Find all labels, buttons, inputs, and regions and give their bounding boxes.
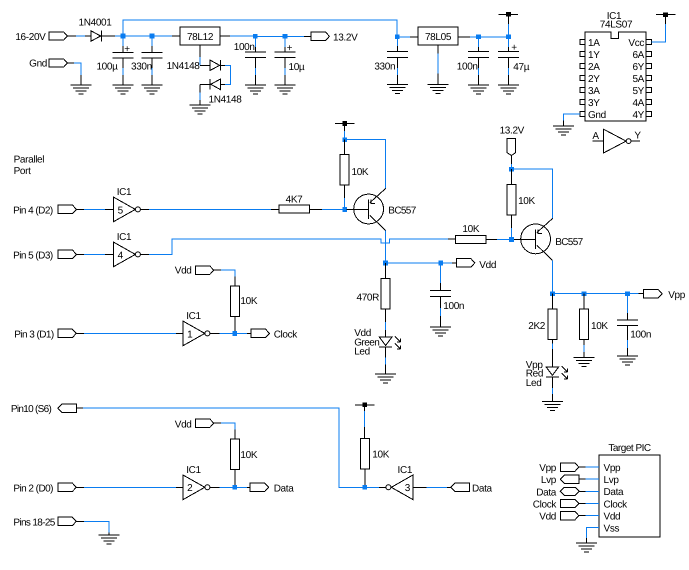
junction 10u node [283, 34, 288, 39]
resistor 470R [381, 279, 390, 310]
op-amp U1 74LS07 body [585, 32, 646, 121]
svg-text:4: 4 [118, 250, 124, 261]
svg-text:4K7: 4K7 [286, 195, 304, 206]
svg-text:Vdd: Vdd [539, 512, 556, 523]
svg-text:330n: 330n [131, 62, 152, 73]
ground 100n (Vdd node) [430, 326, 451, 328]
wire 10K to Q2 base node [510, 215, 512, 228]
wire 78L05 output [458, 36, 470, 38]
wire 47u to ground [507, 57, 509, 68]
junction 13.2V node [509, 167, 514, 172]
wire Q1 collector down to Vdd switch node [385, 231, 387, 263]
wire D2 cathode to D3 anode [221, 64, 225, 66]
junction Vpp node 3 [625, 291, 630, 296]
wire D1 cathode to node A [101, 35, 115, 37]
connector 16-20V [49, 32, 67, 40]
svg-text:BC557: BC557 [388, 206, 416, 217]
diode 1N4148 D2 [210, 60, 220, 70]
svg-text:Data: Data [274, 483, 295, 494]
connector Pins 18-25 [58, 517, 76, 525]
legend buffer bubble [626, 139, 631, 144]
wire 10K to clock node [234, 316, 236, 333]
wire Q2 base lead [512, 238, 514, 240]
resistor 4K7 [279, 205, 310, 213]
capacitor 330n [142, 52, 163, 54]
svg-text:10K: 10K [352, 167, 369, 178]
capacitor 100u [113, 52, 134, 54]
connector Pin 2 (D0) [58, 483, 76, 491]
wire Q1 base lead [345, 208, 347, 210]
capacitor 330n lead (78L05 in) [396, 37, 398, 46]
wire data node to Data connector [235, 486, 247, 488]
ground 10K (Vpp bleed) [574, 356, 595, 358]
junction 330n node [150, 34, 155, 39]
svg-text:16-20V: 16-20V [15, 32, 46, 43]
wire 100n-5V to ground [477, 57, 479, 68]
wire clock node to Clock connector [235, 332, 247, 334]
svg-text:Vdd: Vdd [175, 266, 192, 277]
svg-text:BC557: BC557 [555, 237, 583, 248]
svg-text:78L05: 78L05 [425, 32, 452, 43]
svg-text:Data: Data [604, 487, 625, 498]
svg-text:Port: Port [14, 166, 32, 177]
ground 74LS07 [553, 125, 574, 127]
ground 100n (Vpp node) [617, 355, 638, 357]
power rail Vdd tap (74LS07 Vcc) [656, 14, 675, 16]
connector Vdd (data pull-up) [195, 419, 213, 427]
svg-text:Lvp: Lvp [541, 475, 557, 486]
wire Vdd to 10K data pull-up [214, 422, 222, 424]
wire Vss to ground [587, 528, 600, 538]
wire power tap to Q1 emitter node [344, 123, 346, 131]
wire to Vpp connector [627, 293, 638, 295]
svg-text:100n: 100n [457, 62, 478, 73]
ground red LED [542, 401, 563, 403]
resistor 10K (Q2 base) [455, 235, 486, 243]
svg-text:Vdd: Vdd [604, 512, 621, 523]
wire Pin5 to buffer 4 input [76, 253, 84, 255]
svg-text:3Y: 3Y [588, 98, 600, 109]
legend buffer triangle [604, 129, 626, 153]
led Red [546, 367, 559, 376]
svg-text:Parallel: Parallel [14, 155, 45, 166]
pins 74LS07 right [646, 39, 651, 44]
wire Pin3 to buffer 1 [76, 332, 84, 334]
wire green LED to ground [385, 347, 387, 358]
junction node A (raw DC) [121, 34, 126, 39]
svg-text:Vpp: Vpp [604, 463, 622, 474]
svg-text:10K: 10K [240, 296, 257, 307]
wire 100u to ground [122, 58, 124, 68]
wire emitter rail node to Q1 emitter [345, 140, 386, 189]
svg-text:5Y: 5Y [632, 86, 644, 97]
connector Clock (target) [560, 499, 578, 507]
junction Vdd switch node [383, 261, 388, 266]
wire 100n Vpp to ground [626, 326, 628, 340]
resistor 10K (S6 pull-up) [360, 438, 369, 469]
wire Vpp node to 2K2 [551, 294, 553, 309]
svg-text:4Y: 4Y [632, 110, 644, 121]
capacitor 10u [274, 51, 295, 53]
led Green [379, 337, 392, 346]
wire 78L12 output [220, 35, 230, 37]
svg-text:10K: 10K [372, 450, 389, 461]
power rail 13.2V tap (Q1) [335, 122, 354, 124]
junction Vdd 100n node [438, 261, 443, 266]
svg-text:Pin 5 (D3): Pin 5 (D3) [13, 251, 53, 262]
svg-text:3: 3 [405, 483, 411, 494]
regulator 78L12 [180, 27, 220, 45]
svg-text:Vdd: Vdd [479, 260, 496, 271]
wire to 47u node [478, 36, 508, 38]
svg-text:10K: 10K [518, 196, 535, 207]
regulator 78L05 [418, 27, 458, 45]
svg-text:A: A [592, 131, 599, 142]
resistor 10K (Vpp bleed) [580, 309, 589, 340]
svg-text:6A: 6A [632, 50, 644, 61]
wire buffer 4 output to long base row [140, 253, 148, 255]
svg-text:47µ: 47µ [513, 62, 529, 73]
wire 5V node up to power tap [507, 24, 509, 37]
wire power tap to 10K [364, 405, 366, 411]
capacitor 100u lead top [122, 36, 124, 46]
wire 100n node down [440, 263, 442, 283]
ground 10u [274, 84, 295, 86]
ground Vss [576, 542, 597, 544]
wire 13.2V node to Q2 emitter [512, 169, 553, 218]
svg-text:1N4001: 1N4001 [79, 18, 113, 29]
wire 10K bleed to ground [583, 340, 585, 346]
svg-text:Lvp: Lvp [604, 475, 620, 486]
svg-text:1: 1 [187, 329, 193, 340]
svg-text:Clock: Clock [533, 500, 558, 511]
capacitor 47u lead [507, 37, 509, 47]
svg-text:Vss: Vss [604, 524, 620, 535]
svg-text:Led: Led [526, 378, 542, 389]
connector 13.2V (down) [507, 138, 515, 155]
wire Vpp node to 10K node [552, 293, 584, 295]
connector 13.2V output [311, 32, 329, 40]
capacitor 100n (12V rail) [245, 51, 266, 53]
junction Q1 emitter rail node [342, 137, 347, 142]
svg-text:2: 2 [187, 483, 193, 494]
connector Vdd (switch node) [456, 259, 474, 267]
svg-text:Gnd: Gnd [29, 59, 47, 70]
ground 100n (5V rail) [468, 84, 489, 86]
svg-text:Data: Data [536, 487, 557, 498]
svg-text:+: + [124, 44, 130, 55]
svg-text:100n: 100n [443, 301, 464, 312]
svg-text:Clock: Clock [604, 499, 629, 510]
svg-text:Pin 3 (D1): Pin 3 (D1) [14, 330, 54, 341]
wire 13.2V node down to 10K [511, 169, 513, 184]
capacitor 100n lead [254, 36, 256, 47]
svg-text:IC1: IC1 [398, 465, 413, 476]
diode 1N4148 D3 [209, 79, 211, 90]
connector Pin 5 (D3) [58, 250, 76, 258]
connector Vpp (target) [560, 463, 578, 471]
svg-text:2K2: 2K2 [528, 321, 546, 332]
resistor 10K (Q2 bias) [507, 185, 516, 216]
wire to 100n node [584, 293, 627, 295]
svg-text:+: + [287, 43, 293, 54]
svg-text:6Y: 6Y [632, 62, 644, 73]
wire node A up to top rail [123, 20, 397, 37]
capacitor 47u [498, 51, 519, 53]
svg-text:IC1: IC1 [117, 187, 132, 198]
resistor 10K (clock pull-up) [230, 286, 239, 317]
wire to 10u node [255, 35, 285, 37]
resistor 2K2 [548, 309, 557, 340]
wire Vdd to 10K clock pull-up [214, 269, 222, 271]
svg-text:IC1: IC1 [186, 465, 201, 476]
connector Lvp (target) [560, 475, 579, 483]
svg-text:4A: 4A [632, 98, 644, 109]
wire 10K to Q1 base node [344, 185, 346, 198]
wire Data to PIC [580, 490, 586, 492]
svg-text:Clock: Clock [274, 329, 299, 340]
capacitor 330n (78L05 input) [387, 51, 408, 53]
wire 78L12 gnd pin down [199, 45, 201, 57]
Target PIC body [599, 455, 660, 537]
capacitor 100n (Vpp node) [617, 319, 638, 321]
svg-text:Data: Data [472, 483, 493, 494]
junction 5V node 1 [476, 34, 481, 39]
junction Q2 base node [509, 237, 514, 242]
capacitor 330n lead top [151, 36, 153, 46]
svg-text:5: 5 [118, 205, 124, 216]
ground 100u [113, 84, 134, 86]
wire 330n-2 to ground [396, 57, 398, 68]
wire Pin2 to buffer 2 [76, 486, 84, 488]
wire buffer 3 input to Data connector [413, 486, 426, 488]
svg-text:Pins 18-25: Pins 18-25 [13, 518, 55, 529]
transistor Q2 BC557 [521, 224, 551, 254]
connector Vpp [644, 290, 662, 298]
svg-text:Vdd: Vdd [175, 420, 192, 431]
svg-text:470R: 470R [356, 292, 379, 303]
connector Pin 4 (D2) [58, 205, 76, 213]
capacitor 10u lead [284, 36, 286, 47]
svg-text:74LS07: 74LS07 [600, 20, 633, 31]
wire 330n to ground [151, 58, 153, 68]
connector Data (target, bidirectional) [560, 487, 579, 495]
capacitor 100n (5V rail) [468, 51, 489, 53]
svg-text:Vcc: Vcc [628, 38, 644, 49]
wire Vcc pin to power tap [651, 24, 665, 42]
op-amp U1 buffer 4 [114, 242, 136, 266]
resistor 10K (Q1 bias) [340, 154, 349, 185]
junction Q1 base node [342, 207, 347, 212]
svg-text:13.2V: 13.2V [333, 32, 358, 43]
svg-text:2A: 2A [588, 62, 600, 73]
wire node A to 330n node [123, 35, 152, 37]
wire Vdd node to 100n node [386, 262, 441, 264]
ground 78L05 [428, 84, 449, 86]
op-amp U1 buffer 5 [114, 197, 136, 221]
legend buffer output wire Y [631, 140, 640, 142]
wire Pins 18-25 to ground [76, 520, 84, 522]
wire Clock to PIC [579, 503, 586, 505]
connector Pin10 (S6) [58, 404, 77, 412]
wire Gnd to ground [67, 62, 74, 64]
op-amp U1 buffer 1 [183, 321, 205, 345]
capacitor 100n lead (5V) [477, 37, 479, 47]
ground green LED [375, 373, 396, 375]
svg-text:Target PIC: Target PIC [608, 443, 651, 454]
svg-text:Vpp: Vpp [539, 463, 557, 474]
wire buffer 5 output to 4K7 [140, 208, 148, 210]
wire power node down to 10K [344, 140, 346, 155]
ground 330n (78L05 input) [387, 84, 408, 86]
connector Data (to target) [250, 483, 268, 491]
wire 78L05 gnd pin [437, 45, 439, 54]
wire Pin4 to buffer 5 input [76, 208, 84, 210]
svg-text:13.2V: 13.2V [500, 126, 525, 137]
wire 78L05 input [397, 36, 410, 38]
wire buffer 1 output to clock node [210, 332, 220, 334]
wire 100n to ground [254, 58, 256, 68]
svg-text:10K: 10K [591, 321, 608, 332]
wire 4K7 to Q1 base node [309, 208, 322, 210]
junction data node [232, 485, 237, 490]
connector Vdd (clock pull-up) [195, 266, 213, 274]
wire 10K to data node [234, 469, 236, 487]
svg-text:Y: Y [634, 131, 641, 142]
wire 2K2 to red LED [551, 339, 553, 343]
junction S6 node [362, 485, 367, 490]
svg-text:1N4148: 1N4148 [167, 61, 201, 72]
junction 78L12 out node [253, 34, 258, 39]
junction Vpp node 1 [550, 291, 555, 296]
svg-text:78L12: 78L12 [187, 32, 214, 43]
wire S6 long run to buffer 3 output [76, 407, 83, 409]
svg-text:10K: 10K [462, 224, 479, 235]
power rail Vdd tap (78L05) [499, 13, 518, 15]
svg-text:Vpp: Vpp [668, 290, 686, 301]
wire buffer 2 output to data node [210, 486, 220, 488]
diode 1N4001 [91, 31, 101, 41]
wire 100n Vdd to ground [440, 296, 442, 308]
svg-text:100µ: 100µ [96, 62, 118, 73]
wire to 78L12 input [152, 35, 172, 37]
connector Data (from target) [451, 483, 470, 491]
svg-text:1N4148: 1N4148 [209, 95, 243, 106]
resistor 10K (data pull-up) [230, 439, 239, 470]
power rail Vdd tap (S6 pull-up) [355, 404, 374, 406]
svg-text:100n: 100n [234, 42, 255, 53]
svg-text:10µ: 10µ [289, 62, 305, 73]
wire Vpp to PIC [579, 466, 586, 468]
op-amp U1 buffer 2 [183, 475, 205, 499]
ground 330n [142, 84, 163, 86]
wire Q2 collector down to Vpp node [551, 260, 553, 293]
connector Pin 3 (D1) [58, 329, 76, 337]
junction 78L05 input node [395, 34, 400, 39]
svg-text:5A: 5A [632, 74, 644, 85]
wire Vpp node2 to 10K [583, 294, 585, 309]
wire 10K to S6 node [364, 469, 366, 488]
wire 10K to Q2 base node [486, 238, 497, 240]
wire Gnd pin to ground [564, 114, 580, 120]
ground Gnd input [71, 84, 92, 86]
wire 10u to ground [284, 58, 286, 68]
wire 13.2V connector to node [510, 156, 512, 164]
svg-text:Led: Led [354, 347, 370, 358]
svg-text:330n: 330n [374, 62, 395, 73]
junction 5V node 2 [506, 34, 511, 39]
junction clock node [232, 331, 237, 336]
transistor Q1 BC557 [354, 194, 384, 224]
connector Clock [251, 329, 269, 337]
ground 100n (12V rail) [245, 84, 266, 86]
svg-text:+: + [511, 43, 517, 54]
wire Vpp node3 down [626, 294, 628, 313]
svg-text:10K: 10K [240, 450, 257, 461]
wire S6 node to buffer 3 bubble [365, 486, 379, 488]
wire red LED to ground [551, 377, 553, 388]
op-amp U1 buffer 3 (mirrored) [386, 485, 391, 490]
svg-text:100n: 100n [630, 330, 651, 341]
wire to D2 anode [200, 64, 210, 66]
svg-text:3A: 3A [588, 86, 600, 97]
ground 47u [498, 84, 519, 86]
wire to 13.2V connector [285, 35, 304, 37]
wire Lvp to PIC [579, 478, 586, 480]
svg-text:1Y: 1Y [588, 50, 600, 61]
connector Gnd [49, 59, 67, 67]
wire Vdd to PIC [579, 515, 586, 517]
capacitor 100n (Vdd node) [430, 290, 451, 292]
wire Vdd node to 470R [385, 263, 387, 279]
svg-text:Pin 4 (D2): Pin 4 (D2) [13, 206, 53, 217]
wire D3 cathode to ground [200, 83, 210, 85]
svg-text:Gnd: Gnd [588, 110, 606, 121]
pins 74LS07 left [580, 39, 585, 44]
svg-text:1A: 1A [588, 38, 600, 49]
svg-text:2Y: 2Y [588, 74, 600, 85]
svg-text:Pin10 (S6): Pin10 (S6) [11, 404, 52, 415]
junction Vpp node 2 [582, 291, 587, 296]
svg-text:IC1: IC1 [117, 232, 132, 243]
ground 1N4148 chain [190, 104, 211, 106]
wire 16-20V to D1 anode [67, 35, 76, 37]
connector Vdd (target) [560, 511, 578, 519]
svg-text:IC1: IC1 [186, 311, 201, 322]
svg-text:Pin 2 (D0): Pin 2 (D0) [13, 484, 53, 495]
ground Pins 18-25 [99, 534, 120, 536]
wire to Vdd connector [441, 262, 452, 264]
wire 470R to green LED [385, 309, 387, 322]
